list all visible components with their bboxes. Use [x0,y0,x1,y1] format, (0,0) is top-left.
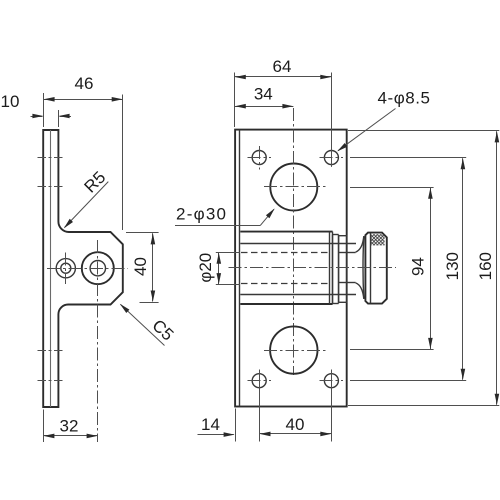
dim phi20: bottom arrowhead [217,273,222,284]
dim 40 left view: bottom extension line [140,302,159,304]
dim 160: bottom extension line [348,405,499,407]
dim 46: right arrowhead [112,97,123,102]
dim 34: left arrowhead [235,104,246,109]
washer: left vertical [332,235,334,304]
shaft: bottom line [347,282,356,284]
dim 160: bottom arrowhead [495,394,500,405]
label 2-phi30: leader diagonal [260,209,274,225]
cylinder: top outer line [240,231,332,233]
svg-text:94: 94 [409,257,428,276]
dim 40 left view: top extension line [126,232,159,234]
dim 94: bottom arrowhead [428,338,433,349]
label C5: leader line [121,304,165,345]
left view: small countersunk hole outer circle [56,259,75,278]
dim 40 bottom: left arrowhead [260,432,271,437]
right view: bottom-left hole extension line down [259,370,261,442]
dim 40 left view: top arrowhead [151,233,156,244]
dim 10: right extension line [58,110,60,127]
knob: body outline [365,233,386,304]
dim 94: dimension line [430,188,432,349]
dim 10: right arrowhead [59,114,70,119]
dim phi20: dimension line [218,253,220,284]
svg-text:14: 14 [201,415,220,434]
dim 64: right arrowhead [320,75,331,80]
collar: outline [339,236,347,303]
left view: small hole vertical centerline [65,253,67,285]
dim phi20: top arrowhead [217,253,222,264]
dim 64: left arrowhead [235,75,246,80]
knob cone: bottom flare [356,283,364,299]
svg-text:130: 130 [443,252,462,280]
dim 14: arrowhead [224,432,235,437]
dim 64: dimension line [235,76,331,78]
right view: bottom-right hole extension line down [331,370,333,442]
left view: strip mid line [50,130,52,407]
svg-text:2-φ30: 2-φ30 [176,205,226,224]
dim 32: left extension line [43,410,45,443]
left view: big bore inner circle [90,261,105,276]
svg-text:34: 34 [254,84,273,103]
dim 32: right arrowhead [87,434,98,439]
shaft: top line [347,252,356,254]
dim phi20: bottom extension line [216,284,240,286]
dim 46: dimension line [44,99,123,101]
left view: centerline tick row2 (circle center row) [38,186,64,188]
cylinder: bottom outer line [240,303,332,305]
right view: bend line at left edge [239,130,241,407]
left view: vertical centerline / extension through big bore [97,240,99,442]
knob cone: base edge [362,236,365,299]
right view: bottom-right phi8.5 hole [324,374,338,388]
dim 32: dimension line [43,435,97,437]
dim 130: top arrowhead [461,158,466,169]
right view: top-right hole horizontal centerline [320,157,344,159]
dim 64: right extension line [331,73,333,167]
label 2-phi30: leader horizontal [175,225,260,227]
left view: centerline tick row1 (hole row) [38,157,64,159]
svg-text:46: 46 [75,74,94,93]
svg-text:64: 64 [273,57,292,76]
right view: bottom-right hole horizontal centerline [320,380,344,382]
dim 46: left arrowhead [44,97,55,102]
cylinder: hidden bore bottom line [241,283,329,285]
right view: bottom phi30 circle [270,326,317,373]
left view: centerline tick row4 (hole row) [38,380,64,382]
dim 160: dimension line [496,131,498,405]
right view: bottom-left hole horizontal centerline [248,380,272,382]
dim 40 left view: bottom arrowhead [151,291,156,302]
cylinder: lower inner line [240,294,356,296]
dim 14: left extension line [235,409,237,442]
dim 160: top extension line [348,130,499,132]
cylinder: right end cap line 2 [332,232,334,304]
washer: right vertical [338,235,340,304]
label 2-phi30: arrowhead [266,208,275,218]
svg-text:32: 32 [60,417,79,436]
right view: top-left phi8.5 hole [252,151,266,165]
svg-text:40: 40 [131,257,150,276]
left view: small countersunk hole inner circle [61,263,71,273]
dim phi20: top extension line [216,252,240,254]
dim 10: left dimension line segment [31,116,43,118]
dim 94: bottom extension line [350,349,434,351]
washer: bottom edge [333,303,339,305]
dim 64: left extension line [234,73,236,128]
label R5: arrowhead [64,219,73,229]
right view: top-left hole vertical centerline [259,146,261,170]
dim 160: top arrowhead [495,131,500,142]
right view: top phi30 circle [270,164,317,211]
right view: circles vertical centerline [293,108,295,375]
cylinder: right end cap line 1 [329,232,331,304]
right view: bottom-left phi8.5 hole [252,374,266,388]
right view: plate outline [235,130,347,407]
svg-text:4-φ8.5: 4-φ8.5 [378,89,431,108]
dim 10: right dimension line segment [60,116,72,118]
dim 94: top arrowhead [428,188,433,199]
dim 130: bottom arrowhead [461,369,466,380]
dim 10: left arrowhead [32,114,43,119]
left view: horizontal centerline through holes [47,268,128,270]
cylinder: hidden bore top line [241,252,329,254]
svg-text:160: 160 [476,252,495,280]
dim 40 bottom: right arrowhead [320,432,331,437]
dim 130: top extension line [350,157,466,159]
assembly horizontal centerline [229,267,397,269]
dim 40 bottom: dimension line [260,433,332,435]
washer: top edge [333,234,339,236]
dim 46: right extension line [122,95,124,231]
dim 14: dimension line [198,434,234,436]
collar: lower divider [339,282,347,284]
left view: big bore outer circle [82,252,114,284]
left view: centerline tick row3 (circle center row) [38,350,64,352]
dim 40 left view: dimension line [152,233,154,301]
knob cone: top flare [356,236,364,252]
dim 34: dimension line [235,106,294,108]
dim 130: bottom extension line [350,380,466,382]
dim 130: dimension line [462,158,464,380]
right view: bottom circle horizontal centerline [264,350,326,352]
dim 32: left arrowhead [43,434,54,439]
svg-text:10: 10 [1,92,20,111]
right view: top-left hole horizontal centerline [248,157,272,159]
knob: face line [370,233,372,303]
label 4-phi8.5: arrowhead [337,143,347,151]
right view: top circle horizontal centerline [264,186,327,188]
label C5: arrowhead [120,304,130,313]
svg-text:40: 40 [286,415,305,434]
right view: top-right phi8.5 hole [324,151,338,165]
knob: knurl crosshatch patch [371,234,385,245]
collar: upper divider [339,252,347,254]
dim 46: left extension line [43,93,45,127]
dim 34: right arrowhead [282,104,293,109]
label 4-phi8.5: leader line [338,109,396,151]
cylinder: upper inner line [240,243,356,245]
svg-text:φ20: φ20 [196,253,215,283]
dim 94: top extension line [350,187,434,189]
label R5: leader line [65,182,109,228]
left view: bracket side-view outline [43,130,123,407]
